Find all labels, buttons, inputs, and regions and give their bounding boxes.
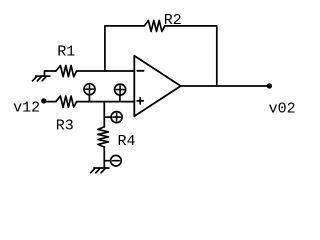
svg-text:R2: R2 <box>164 12 182 29</box>
svg-text:R1: R1 <box>57 43 75 60</box>
svg-text:v12: v12 <box>13 99 40 116</box>
svg-text:R4: R4 <box>118 133 136 150</box>
svg-text:R3: R3 <box>56 117 74 134</box>
svg-text:v02: v02 <box>269 101 296 118</box>
